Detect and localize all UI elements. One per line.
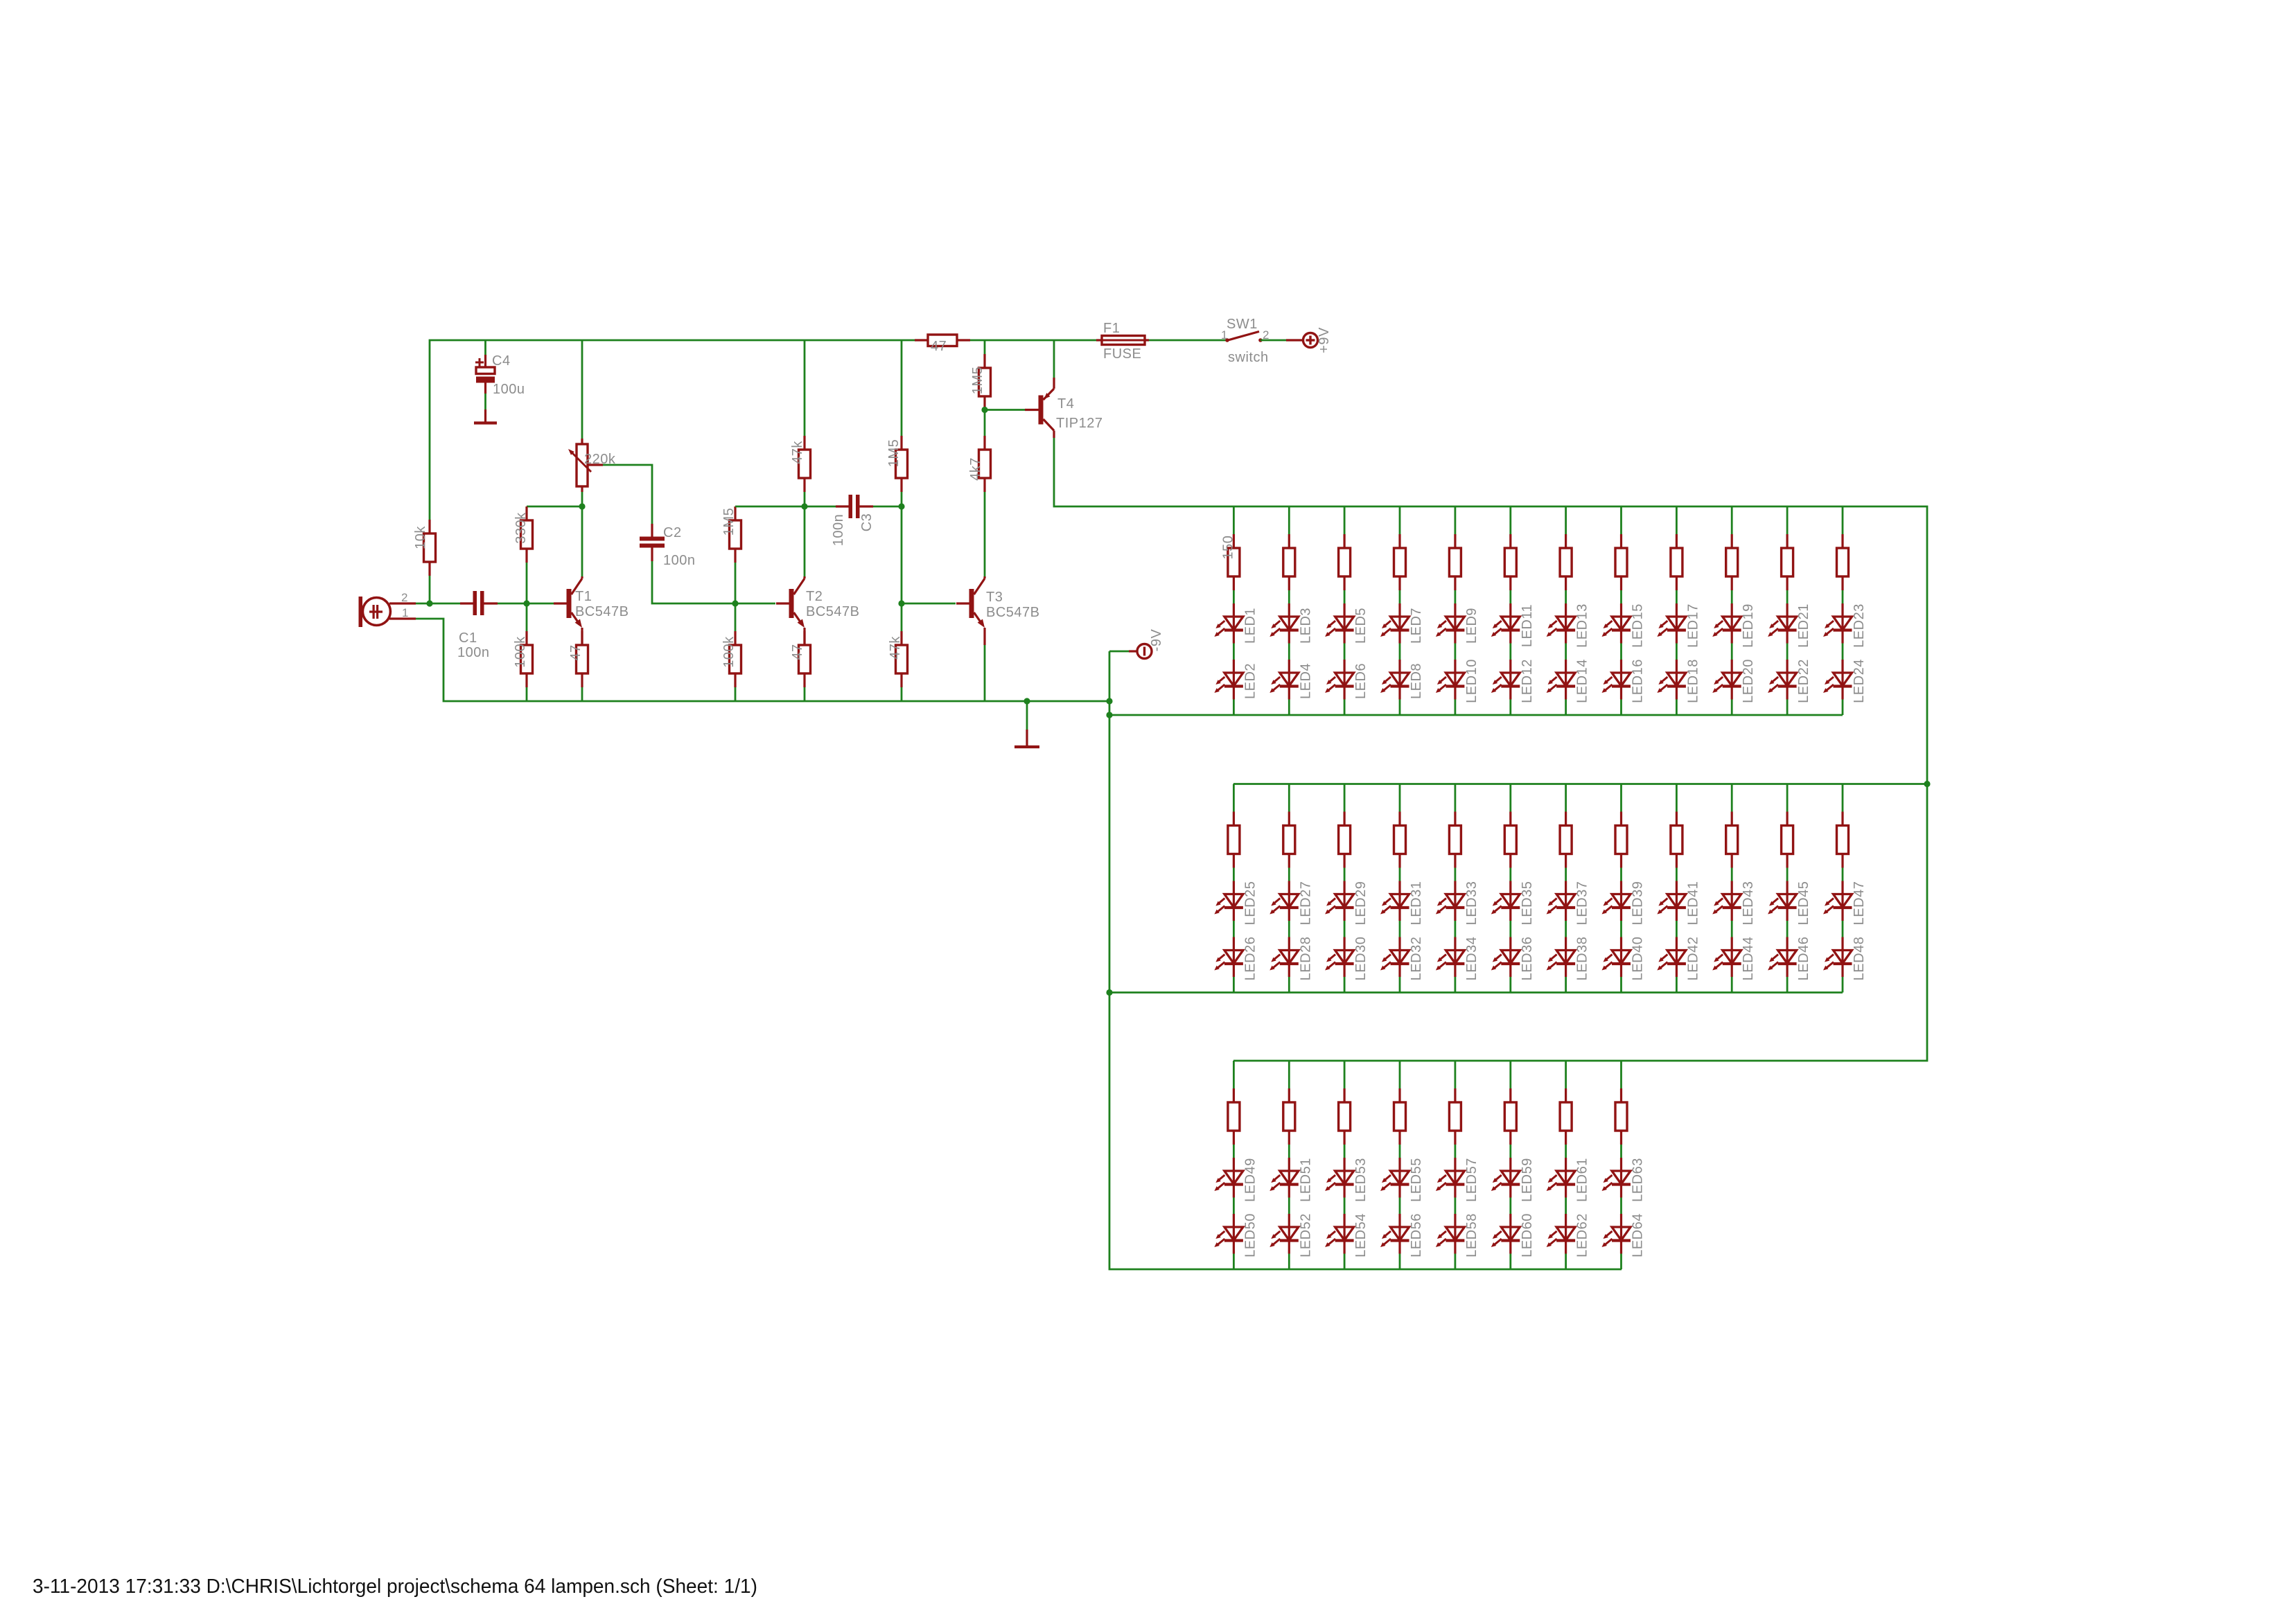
LED33 (1436, 881, 1465, 921)
svg-text:330k: 330k (513, 512, 529, 544)
resistor 150 for LED31/LED32 (1394, 812, 1406, 868)
LED4 (1270, 660, 1299, 700)
resistor 150 for LED39/LED40 (1615, 812, 1627, 868)
wire bank column LED45/LED46 top segment (1786, 784, 1789, 812)
svg-text:T4: T4 (1057, 396, 1074, 412)
wire LED63 to LED64 (1620, 1198, 1622, 1215)
svg-text:47k: 47k (888, 636, 903, 660)
wire bank column LED11/LED12 top segment (1509, 506, 1511, 534)
wire resistor to LED15 (1620, 590, 1622, 603)
resistor 150 for LED51/LED52 (1283, 1088, 1295, 1145)
svg-text:LED17: LED17 (1685, 603, 1701, 648)
wire LED33 to LED34 (1454, 921, 1456, 937)
resistor 150 for LED5/LED6 (1339, 534, 1351, 590)
svg-text:100n: 100n (663, 553, 696, 568)
wire resistor to LED31 (1399, 868, 1401, 881)
svg-text:LED56: LED56 (1409, 1213, 1424, 1257)
svg-text:3-11-2013 17:31:33 D:\CHRIS\L: 3-11-2013 17:31:33 D:\CHRIS\Lichtorgel p… (33, 1576, 757, 1598)
svg-text:100n: 100n (457, 645, 490, 660)
resistor 150 for LED49/LED50 (1228, 1088, 1240, 1145)
wire bank column LED5/LED6 top segment (1344, 506, 1346, 534)
svg-text:LED7: LED7 (1409, 608, 1424, 644)
wire 330k to base junction (526, 563, 528, 603)
junction T2 collector node (801, 503, 807, 509)
wire LED6 to bottom bus (1344, 700, 1346, 716)
LED26 (1214, 937, 1243, 978)
transistor T4 TIP127 (PNP) (1025, 378, 1054, 438)
wire LED55 to LED56 (1399, 1198, 1401, 1215)
LED64 (1602, 1214, 1631, 1254)
junction left rail / amp bottom rail (1106, 698, 1112, 704)
wire LED41 to LED42 (1676, 921, 1678, 937)
svg-text:LED3: LED3 (1298, 608, 1313, 644)
wire LED4 to bottom bus (1288, 700, 1290, 716)
svg-text:F1: F1 (1103, 321, 1120, 336)
wire resistor to LED39 (1620, 868, 1622, 881)
wire LED31 to LED32 (1399, 921, 1401, 937)
resistor 150 for LED55/LED56 (1394, 1088, 1406, 1145)
LED6 (1325, 660, 1354, 700)
LED19 (1712, 603, 1741, 644)
resistor 150 for LED37/LED38 (1560, 812, 1572, 868)
wire bank column LED21/LED22 top segment (1786, 506, 1789, 534)
capacitor C1 (460, 591, 498, 615)
svg-text:C4: C4 (492, 353, 511, 369)
wire resistor to LED19 (1731, 590, 1733, 603)
wire LED42 to bottom bus (1676, 977, 1678, 993)
LED36 (1491, 937, 1520, 978)
wire pot wiper to C2 (603, 465, 652, 524)
svg-text:LED64: LED64 (1631, 1213, 1646, 1257)
wire LED39 to LED40 (1620, 921, 1622, 937)
LED23 (1823, 603, 1852, 644)
resistor 150 for LED43/LED44 (1726, 812, 1738, 868)
svg-text:BC547B: BC547B (986, 605, 1040, 620)
svg-text:1: 1 (402, 606, 409, 619)
resistor 47 (top rail) (915, 335, 970, 346)
wire 47k T3 to bottom rail (901, 687, 903, 701)
wire bank column LED3/LED4 top segment (1288, 506, 1290, 534)
LED53 (1325, 1158, 1354, 1198)
wire left LED rail down to bank3 bottom bus (1109, 651, 1622, 1269)
svg-text:LED10: LED10 (1464, 659, 1479, 703)
wire LED58 to bottom bus (1454, 1254, 1456, 1270)
wire resistor to LED23 (1842, 590, 1844, 603)
svg-text:LED13: LED13 (1575, 603, 1590, 648)
svg-text:LED53: LED53 (1353, 1158, 1369, 1202)
svg-text:LED24: LED24 (1852, 659, 1867, 703)
svg-text:LED49: LED49 (1242, 1158, 1258, 1202)
ground symbol (bottom rail) (1014, 701, 1039, 747)
transistor T2 BC547B (776, 576, 805, 645)
wire LED5 to LED6 (1344, 644, 1346, 660)
svg-text:47k: 47k (790, 441, 805, 464)
wire LED17 to LED18 (1676, 644, 1678, 660)
wire resistor to LED57 (1454, 1145, 1456, 1158)
wire resistor to LED63 (1620, 1145, 1622, 1158)
potentiometer 220k (568, 439, 603, 492)
svg-text:47: 47 (931, 339, 947, 354)
switch SW1 (1225, 332, 1263, 342)
wire bank column LED31/LED32 top segment (1399, 784, 1401, 812)
LED29 (1325, 881, 1354, 921)
svg-text:LED15: LED15 (1631, 603, 1646, 648)
wire T4 collector feed to LED banks (right rail) (1054, 438, 1927, 1061)
wire bank column LED51/LED52 top segment (1288, 1061, 1290, 1088)
wire pot bottom to junction (581, 492, 583, 506)
wire resistor to LED21 (1786, 590, 1789, 603)
wire +9V top rail left segment and left rail down to mic junction (429, 576, 431, 603)
wire T4 base node to base pin (985, 409, 1025, 411)
resistor 150 for LED45/LED46 (1782, 812, 1793, 868)
svg-text:LED20: LED20 (1741, 659, 1756, 703)
wire pot bottom junction to divider top (527, 506, 582, 508)
wire resistor to LED49 (1233, 1145, 1235, 1158)
wire resistor to LED45 (1786, 868, 1789, 881)
wire bank column LED57/LED58 top segment (1454, 1061, 1456, 1088)
resistor 4k7 (979, 436, 991, 492)
svg-text:LED14: LED14 (1575, 659, 1590, 703)
resistor 47 (T2 emitter) (799, 631, 811, 687)
wire LED40 to bottom bus (1620, 977, 1622, 993)
wire LED18 to bottom bus (1676, 700, 1678, 716)
capacitor C4 (475, 355, 495, 394)
LED59 (1491, 1158, 1520, 1198)
svg-text:LED33: LED33 (1464, 881, 1479, 926)
resistor 47k (T2 load) (799, 436, 811, 492)
svg-text:-9V: -9V (1149, 629, 1164, 652)
svg-text:47: 47 (790, 644, 805, 660)
wire LED3 to LED4 (1288, 644, 1290, 660)
LED51 (1270, 1158, 1299, 1198)
wire LED36 to bottom bus (1509, 977, 1511, 993)
wire resistor to LED5 (1344, 590, 1346, 603)
svg-text:LED50: LED50 (1242, 1213, 1258, 1257)
wire bank column LED7/LED8 top segment (1399, 506, 1401, 534)
wire 1M5 to C3 node (901, 492, 903, 506)
resistor 150 for LED23/LED24 (1837, 534, 1849, 590)
wire mic pin2 to C1 (416, 603, 460, 605)
wire bank2 top bus (1233, 783, 1927, 785)
resistor 150 for LED27/LED28 (1283, 812, 1295, 868)
resistor 1M5 (T4 divider) (979, 354, 991, 410)
svg-text:LED35: LED35 (1520, 881, 1535, 926)
LED63 (1602, 1158, 1631, 1198)
svg-text:LED25: LED25 (1242, 881, 1258, 926)
LED54 (1325, 1214, 1354, 1254)
resistor 150 for LED17/LED18 (1671, 534, 1683, 590)
resistor 150 for LED9/LED10 (1449, 534, 1461, 590)
svg-text:1M5: 1M5 (970, 367, 985, 394)
capacitor C2 (640, 524, 665, 561)
resistor 150 for LED7/LED8 (1394, 534, 1406, 590)
svg-text:100u: 100u (493, 382, 525, 397)
LED5 (1325, 603, 1354, 644)
LED13 (1547, 603, 1576, 644)
resistor 10k (left rail) (424, 520, 436, 576)
svg-text:LED21: LED21 (1796, 603, 1811, 648)
LED15 (1602, 603, 1631, 644)
wire bank column LED35/LED36 top segment (1509, 784, 1511, 812)
svg-text:10k: 10k (413, 526, 428, 549)
LED45 (1768, 881, 1797, 921)
junction pot/collector node (579, 503, 585, 509)
wire bank1 bottom bus (1109, 714, 1843, 716)
wire LED10 to bottom bus (1454, 700, 1456, 716)
transistor T1 BC547B (554, 576, 582, 645)
wire resistor to LED53 (1344, 1145, 1346, 1158)
svg-text:LED23: LED23 (1852, 603, 1867, 648)
wire bank column LED49/LED50 top segment (1233, 1061, 1235, 1088)
svg-text:LED52: LED52 (1298, 1213, 1313, 1257)
svg-text:47: 47 (568, 644, 583, 660)
resistor 1M5 (T3 divider) (896, 436, 908, 492)
resistor 150 for LED41/LED42 (1671, 812, 1683, 868)
wire down to T3 base junction (901, 506, 903, 603)
LED43 (1712, 881, 1741, 921)
LED8 (1380, 660, 1409, 700)
wire LED2 to bottom bus (1233, 700, 1235, 716)
resistor 150 for LED63/LED64 (1615, 1088, 1627, 1145)
resistor 150 for LED35/LED36 (1504, 812, 1516, 868)
wire base junction down to 100k (526, 603, 528, 631)
svg-text:T2: T2 (806, 589, 823, 604)
svg-text:LED62: LED62 (1575, 1213, 1590, 1257)
wire LED62 to bottom bus (1565, 1254, 1567, 1270)
resistor 150 for LED25/LED26 (1228, 812, 1240, 868)
resistor 47k (T3) (896, 631, 908, 687)
junction right rail / bank2 top bus (1924, 781, 1930, 787)
svg-text:LED55: LED55 (1409, 1158, 1424, 1202)
svg-text:LED51: LED51 (1298, 1158, 1313, 1202)
LED60 (1491, 1214, 1520, 1254)
wire T3 base junction down to 47k (901, 603, 903, 631)
wire top rail to 1M5 (T4 base divider) (984, 340, 986, 354)
wire resistor to LED41 (1676, 868, 1678, 881)
wire bank column LED61/LED62 top segment (1565, 1061, 1567, 1088)
wire bank column LED15/LED16 top segment (1620, 506, 1622, 534)
wire resistor to LED51 (1288, 1145, 1290, 1158)
resistor 150 for LED61/LED62 (1560, 1088, 1572, 1145)
LED55 (1380, 1158, 1409, 1198)
svg-text:LED60: LED60 (1520, 1213, 1535, 1257)
wire LED50 to bottom bus (1233, 1254, 1235, 1270)
resistor 100k (T2) (730, 631, 741, 687)
wire bank column LED19/LED20 top segment (1731, 506, 1733, 534)
LED50 (1214, 1214, 1243, 1254)
wire LED1 to LED2 (1233, 644, 1235, 660)
wire LED45 to LED46 (1786, 921, 1789, 937)
svg-text:LED19: LED19 (1741, 603, 1756, 648)
wire LED64 to bottom bus (1620, 1254, 1622, 1270)
svg-text:1: 1 (1221, 328, 1228, 342)
wire resistor to LED47 (1842, 868, 1844, 881)
LED20 (1712, 660, 1741, 700)
wire bank column LED1/LED2 top segment (1233, 506, 1235, 534)
LED27 (1270, 881, 1299, 921)
wire resistor to LED9 (1454, 590, 1456, 603)
wire C3 to 1M5 node (873, 506, 902, 508)
wire T2 emitter resistor to bottom rail (804, 687, 806, 701)
wire resistor to LED61 (1565, 1145, 1567, 1158)
wire bank column LED13/LED14 top segment (1565, 506, 1567, 534)
wire LED27 to LED28 (1288, 921, 1290, 937)
wire top rail to potentiometer (581, 340, 583, 439)
wire LED15 to LED16 (1620, 644, 1622, 660)
svg-text:100n: 100n (831, 514, 846, 547)
LED2 (1214, 660, 1243, 700)
LED30 (1325, 937, 1354, 978)
LED39 (1602, 881, 1631, 921)
LED25 (1214, 881, 1243, 921)
resistor 150 for LED21/LED22 (1782, 534, 1793, 590)
wire LED19 to LED20 (1731, 644, 1733, 660)
svg-text:LED32: LED32 (1409, 937, 1424, 981)
LED37 (1547, 881, 1576, 921)
wire 47k to C3 node (804, 492, 806, 506)
wire -9V to left LED rail (1109, 651, 1129, 653)
wire LED12 to bottom bus (1509, 700, 1511, 716)
LED56 (1380, 1214, 1409, 1254)
wire LED22 to bottom bus (1786, 700, 1789, 716)
LED24 (1823, 660, 1852, 700)
microphone MIC (359, 597, 416, 627)
svg-text:LED46: LED46 (1796, 937, 1811, 981)
wire LED59 to LED60 (1509, 1198, 1511, 1215)
junction T2 base divider (732, 600, 738, 606)
wire resistor to LED37 (1565, 868, 1567, 881)
svg-text:1M5: 1M5 (721, 508, 737, 536)
wire resistor to LED43 (1731, 868, 1733, 881)
junction left rail / bank2 bottom bus (1106, 989, 1112, 996)
svg-text:LED9: LED9 (1464, 608, 1479, 644)
svg-text:LED6: LED6 (1353, 663, 1369, 699)
svg-text:LED1: LED1 (1242, 608, 1258, 644)
wire bank column LED39/LED40 top segment (1620, 784, 1622, 812)
wire mic pin1 to bottom rail (416, 619, 1109, 701)
resistor 330k (521, 506, 533, 563)
LED58 (1436, 1214, 1465, 1254)
wire top rail to T4 emitter (1053, 340, 1055, 378)
junction C3/1M5 node (898, 503, 904, 509)
svg-text:SW1: SW1 (1227, 317, 1258, 332)
wire LED25 to LED26 (1233, 921, 1235, 937)
resistor 150 for LED57/LED58 (1449, 1088, 1461, 1145)
wire LED11 to LED12 (1509, 644, 1511, 660)
svg-text:T1: T1 (575, 589, 592, 604)
wire bank column LED29/LED30 top segment (1344, 784, 1346, 812)
LED57 (1436, 1158, 1465, 1198)
transistor T3 BC547B (956, 576, 985, 645)
wire LED48 to bottom bus (1842, 977, 1844, 993)
LED41 (1657, 881, 1686, 921)
junction T4 base node (981, 407, 987, 413)
LED31 (1380, 881, 1409, 921)
wire bank column LED17/LED18 top segment (1676, 506, 1678, 534)
LED22 (1768, 660, 1797, 700)
wire resistor to LED29 (1344, 868, 1346, 881)
wire bank column LED55/LED56 top segment (1399, 1061, 1401, 1088)
wire LED30 to bottom bus (1344, 977, 1346, 993)
LED18 (1657, 660, 1686, 700)
wire LED44 to bottom bus (1731, 977, 1733, 993)
LED52 (1270, 1214, 1299, 1254)
svg-text:LED59: LED59 (1520, 1158, 1535, 1202)
svg-text:LED12: LED12 (1520, 659, 1535, 703)
svg-text:LED61: LED61 (1575, 1158, 1590, 1202)
resistor 150 for LED53/LED54 (1339, 1088, 1351, 1145)
resistor 150 for LED15/LED16 (1615, 534, 1627, 590)
wire LED46 to bottom bus (1786, 977, 1789, 993)
wire LED28 to bottom bus (1288, 977, 1290, 993)
wire C4 to ground (484, 394, 486, 409)
wire fuse to switch (1149, 339, 1227, 342)
wire bank column LED25/LED26 top segment (1233, 784, 1235, 812)
wire resistor to LED7 (1399, 590, 1401, 603)
wire C3 node left segment (735, 506, 836, 508)
svg-text:LED26: LED26 (1242, 937, 1258, 981)
resistor 150 for LED1/LED2 (1228, 534, 1240, 590)
wire LED14 to bottom bus (1565, 700, 1567, 716)
svg-text:150: 150 (1220, 536, 1236, 560)
svg-text:LED29: LED29 (1353, 881, 1369, 926)
LED34 (1436, 937, 1465, 978)
LED9 (1436, 603, 1465, 644)
wire resistor to LED13 (1565, 590, 1567, 603)
wire LED21 to LED22 (1786, 644, 1789, 660)
ground below C4 (474, 409, 497, 423)
LED46 (1768, 937, 1797, 978)
wire bank column LED47/LED48 top segment (1842, 784, 1844, 812)
wire LED38 to bottom bus (1565, 977, 1567, 993)
LED48 (1823, 937, 1852, 978)
wire 100k to bottom rail (526, 687, 528, 701)
wire top rail to 1M5 (T3 divider) (901, 340, 903, 436)
LED1 (1214, 603, 1243, 644)
svg-text:LED43: LED43 (1741, 881, 1756, 926)
svg-text:100k: 100k (721, 636, 737, 668)
wire resistor to LED3 (1288, 590, 1290, 603)
wire LED43 to LED44 (1731, 921, 1733, 937)
svg-text:LED28: LED28 (1298, 937, 1313, 981)
junction left rail / bank1 bottom bus (1106, 712, 1112, 718)
svg-text:LED2: LED2 (1242, 663, 1258, 699)
-9V supply symbol (1129, 644, 1152, 659)
wire left rail upper (430, 340, 915, 520)
wire LED53 to LED54 (1344, 1198, 1346, 1215)
LED21 (1768, 603, 1797, 644)
wire bank column LED59/LED60 top segment (1509, 1061, 1511, 1088)
LED12 (1491, 660, 1520, 700)
resistor 150 for LED29/LED30 (1339, 812, 1351, 868)
wire LED61 to LED62 (1565, 1198, 1567, 1215)
svg-text:2: 2 (401, 591, 408, 604)
wire LED60 to bottom bus (1509, 1254, 1511, 1270)
wire resistor to LED17 (1676, 590, 1678, 603)
junction T1 base divider (523, 600, 529, 606)
resistor 150 for LED11/LED12 (1504, 534, 1516, 590)
resistor 150 for LED33/LED34 (1449, 812, 1461, 868)
svg-text:LED30: LED30 (1353, 937, 1369, 981)
resistor 150 for LED47/LED48 (1837, 812, 1849, 868)
LED3 (1270, 603, 1299, 644)
wire LED52 to bottom bus (1288, 1254, 1290, 1270)
svg-text:LED34: LED34 (1464, 937, 1479, 981)
wire bank column LED41/LED42 top segment (1676, 784, 1678, 812)
wire resistor to LED27 (1288, 868, 1290, 881)
wire pot junction to T1 collector (581, 506, 583, 576)
LED10 (1436, 660, 1465, 700)
